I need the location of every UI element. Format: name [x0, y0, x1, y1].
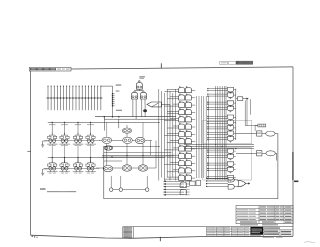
NAND gate N1 central column	[207, 87, 236, 93]
wire Y1 lead	[255, 125, 258, 127]
bottom NAND gate BN1	[228, 178, 234, 183]
title block right cells	[251, 227, 293, 237]
pulse amplifier box PA1	[257, 131, 262, 136]
revision table bottom row text	[239, 221, 242, 222]
NOTES heading	[39, 188, 42, 189]
delay line tag DL1	[147, 102, 161, 107]
NAND gate N13 central column	[207, 167, 236, 173]
NAND gate N11 central column	[207, 154, 236, 160]
row 1 cell labels	[49, 123, 94, 126]
NAND gate N5 central column	[207, 115, 236, 121]
drawing number text	[263, 231, 266, 232]
wire verticals below A1	[244, 100, 246, 125]
bus wire B1	[95, 116, 176, 118]
interrow wire V5	[155, 141, 157, 169]
wire drop B2	[118, 119, 120, 128]
dual transistor oval Q5	[104, 146, 113, 150]
note text line	[46, 191, 49, 192]
vertical input bus lines left of gate column	[159, 89, 176, 181]
bottom row tie wire T2-T3	[123, 189, 146, 191]
gate pair U1 left column	[164, 86, 195, 92]
wire row1 to ground	[43, 140, 48, 142]
ladder tap dots	[112, 93, 115, 107]
label GND	[115, 110, 118, 111]
delay line oval DLY2	[266, 151, 275, 156]
gate pair U2 left column	[167, 94, 195, 100]
drawing frame bottom border	[31, 235, 293, 238]
inverter E2 bubble	[134, 91, 135, 92]
pulse amplifier box PA2	[257, 151, 262, 156]
label voltage tap	[115, 90, 118, 91]
gate pair U6 left column	[167, 123, 195, 129]
DEC logo black box	[251, 227, 264, 235]
voltage ladder wire	[112, 86, 114, 117]
revision table text right column	[285, 206, 291, 222]
mid bus wire 2	[102, 156, 172, 158]
bottom transistor riser T2	[120, 176, 122, 183]
inverter E3 bubble	[143, 91, 144, 92]
bottom shield gate G14	[180, 182, 187, 187]
stamped drawing number label top	[220, 61, 228, 64]
revision table text middle	[260, 206, 284, 220]
wire A1 output arrow	[243, 98, 248, 100]
pencil scribble bottom-right	[305, 241, 316, 244]
title strip left edge	[122, 227, 124, 239]
wire E2 leg b	[135, 99, 137, 119]
signature bottom row text	[250, 234, 253, 237]
interrow wire H6	[104, 160, 122, 162]
ground symbol row 1	[42, 141, 44, 145]
wire DL1 output	[161, 103, 170, 105]
wire channel verticals right of left column	[197, 96, 209, 178]
delay line oval DLY1	[266, 131, 275, 136]
dual transistor oval Q8	[103, 165, 113, 171]
inverter E3	[140, 92, 146, 99]
reference drawing list strip	[29, 67, 71, 71]
drawing frame left border	[30, 69, 32, 235]
gate pair U11 left column	[164, 159, 195, 165]
bus junction dots	[104, 116, 106, 118]
row2 interconnect wire left	[96, 167, 104, 169]
NAND gate N12 central column	[207, 162, 236, 168]
inverter E1 bubble	[139, 81, 141, 83]
dual transistor oval Q2	[122, 128, 131, 133]
interrow wire V2	[126, 144, 128, 166]
wire drop to row rail	[103, 117, 105, 131]
bottom transistor T3	[146, 188, 149, 191]
bottom transistor riser T1	[110, 176, 112, 183]
module outline box M1	[203, 120, 252, 144]
corner dirt marks bottom-left	[32, 236, 33, 237]
flip-flop cell FF13	[73, 133, 84, 146]
NAND gate N10 central column	[207, 149, 236, 155]
bottom transistor T1	[110, 188, 113, 191]
wire E1 to E2/E3	[138, 89, 140, 90]
flip-flop cell FF24	[85, 160, 96, 173]
dual transistor oval Q4	[135, 137, 145, 143]
wire DLY2 output	[275, 153, 276, 160]
cell drop wires row1 to bus	[52, 144, 90, 163]
component box K1	[190, 181, 195, 186]
central bus wire H3	[184, 148, 254, 150]
solder blob junction	[143, 109, 147, 112]
row 2 rail wire	[48, 157, 165, 159]
wire E3 leg b	[144, 99, 146, 104]
gate pair U4 left column	[167, 108, 195, 114]
component K2	[196, 180, 201, 185]
gate pair U13 left column	[164, 174, 195, 180]
flip-flop cell FF12	[59, 133, 70, 146]
drawing frame top border	[31, 67, 293, 70]
row 1 through wire	[44, 140, 99, 142]
loop wire from DLY1 around schematic	[104, 134, 278, 199]
mid bus junction dots	[126, 155, 127, 156]
copyright text block	[124, 227, 132, 238]
flip-flop cell FF21	[47, 160, 58, 173]
NAND gate N6 central column	[207, 120, 236, 126]
inverter E1	[136, 82, 142, 89]
module outline box M2	[203, 148, 252, 180]
mid bus wire 1	[102, 154, 174, 156]
wire E2 leg a	[132, 99, 134, 117]
central bus wire H2	[184, 145, 254, 147]
gate box A1 right of central column	[238, 97, 243, 101]
sheet mark top-right outside border	[294, 181, 298, 183]
label +10V	[115, 84, 118, 85]
wire central to PA1	[236, 133, 257, 135]
NAND gate N2 central column	[207, 93, 236, 99]
interrow wire V3	[142, 144, 144, 165]
sheet text below border	[275, 236, 278, 239]
row 1 bus drop wires	[52, 122, 92, 135]
wire row2 to ground	[43, 168, 48, 170]
bottom transistor T2	[119, 188, 122, 191]
row 2 drop wires	[52, 157, 92, 163]
inverter E2	[131, 92, 137, 99]
vertical bus lines central	[216, 86, 226, 180]
dual transistor oval Q6	[122, 165, 132, 171]
central bus junction dots	[215, 144, 216, 145]
bottom OR gate BO1 with output arrow	[238, 180, 246, 187]
wire comb to ladder	[101, 85, 113, 87]
bus wire B2	[104, 118, 176, 120]
flip-flop cell FF23	[73, 160, 84, 173]
interrow wire H5	[104, 152, 172, 154]
bottom shield gate G15	[180, 189, 187, 194]
dual transistor oval Q3	[123, 137, 133, 143]
label above inverter E1	[139, 76, 142, 77]
smudge on right border	[292, 152, 294, 180]
output collector wire central column	[235, 89, 237, 140]
bottom input comb with dots	[206, 178, 228, 187]
copyright block divider	[132, 227, 134, 238]
size cell text	[280, 231, 283, 233]
comb junction dots	[47, 97, 101, 99]
NAND gate N8 central column	[207, 131, 236, 137]
flip-flop cell FF11	[47, 133, 58, 146]
interrow wire V4	[150, 141, 152, 156]
gate pair U3 left column	[164, 101, 195, 107]
dual transistor oval Q7	[138, 165, 148, 171]
wire E3 leg a	[141, 99, 143, 117]
signature grid	[207, 227, 251, 236]
wire A1 input	[236, 98, 238, 100]
bottom transistor riser T3	[146, 176, 148, 183]
gate pair U12 left column	[167, 167, 195, 173]
NAND gate N14 central column	[207, 175, 236, 181]
zone tick bottom border	[159, 237, 161, 241]
gate pair U8 left column	[167, 138, 195, 144]
row 2 through wire	[44, 167, 99, 169]
NAND gate N7 central column	[207, 126, 236, 132]
comb bus wire	[46, 97, 102, 99]
drawing frame right border	[292, 67, 294, 236]
resistor comb array R1-R18	[47, 86, 101, 111]
flip-flop cell FF22	[59, 160, 70, 173]
NAND gate N9 central column	[207, 136, 236, 142]
interrow wire H4	[104, 145, 160, 147]
revision table	[236, 206, 293, 224]
flip-flop cell FF14	[85, 133, 96, 146]
form number text below border	[262, 237, 265, 238]
title text	[263, 227, 266, 228]
gate pair U10 left column	[167, 152, 195, 158]
revision table text left column	[237, 209, 255, 220]
title strip top line	[123, 226, 293, 228]
gate pair U7 left column	[164, 130, 195, 136]
crystal network Y1	[258, 124, 266, 127]
dual transistor oval Q1	[102, 137, 112, 143]
wire central to PA2	[236, 152, 257, 154]
row 1 top bus wire	[48, 122, 160, 124]
oval riser wires	[106, 123, 108, 138]
ground symbol row 2	[42, 169, 44, 173]
wires bottom gates outputs	[234, 179, 238, 181]
signature grid text	[207, 227, 249, 235]
zone tick left border	[27, 150, 30, 152]
bottom NAND gate BN2	[228, 184, 234, 189]
interrow wire V1	[106, 144, 108, 166]
NAND gate N3 central column	[207, 101, 236, 107]
wire to crystal	[245, 125, 258, 127]
central bus wire H1	[184, 143, 254, 145]
gate pair U5 left column	[164, 116, 195, 122]
bottom row tie wire T1-T2	[113, 189, 119, 191]
gate pair U9 left column	[164, 145, 195, 151]
conversion chart text	[239, 224, 242, 225]
NAND gate N4 central column	[207, 106, 236, 112]
row interconnect wires	[99, 139, 102, 141]
zone tick top border	[160, 63, 162, 68]
signal arrows group	[164, 181, 190, 196]
